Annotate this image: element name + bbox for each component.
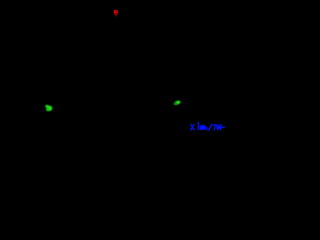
red LED glow — [114, 10, 118, 17]
W zigzag — [217, 125, 222, 131]
green LED glow right — [173, 100, 181, 106]
ending tail — [222, 127, 225, 128]
tall t stroke — [197, 122, 199, 129]
cluster ending flick — [206, 127, 208, 130]
blue signature — [191, 122, 225, 130]
m-w squiggle cluster (dense mass) — [199, 125, 206, 130]
seven-like stroke — [213, 125, 215, 130]
slash — [209, 124, 212, 130]
letter X — [191, 124, 195, 130]
green LED glow left — [45, 105, 52, 111]
